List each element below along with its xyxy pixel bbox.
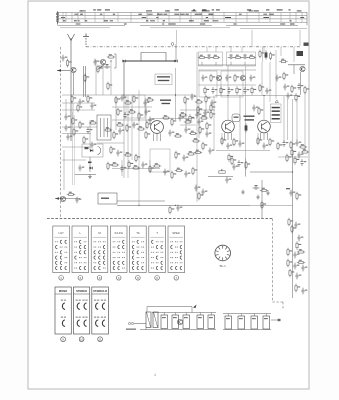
pin label top (216, 9, 220, 10)
svg-text:STEREO-R: STEREO-R (93, 289, 107, 293)
module outline IF amp (199, 71, 217, 97)
switch contact (60, 251, 62, 254)
wire supply rail (62, 94, 195, 96)
switch contact pins (137, 257, 138, 258)
wire mesh v (292, 99, 294, 155)
switch contact (60, 256, 62, 259)
wire (231, 133, 233, 140)
capacitor LM10 (184, 171, 187, 178)
switch wafer S2 (72, 226, 89, 273)
resistor MC5 (146, 99, 154, 101)
filter cell F3 (251, 316, 258, 329)
diode D2 (174, 60, 177, 63)
switch contact (175, 267, 177, 270)
switch contact pins (64, 257, 65, 258)
capacitor U3 (238, 141, 241, 148)
switch section boundary dashed (47, 218, 273, 220)
resistor RS2 (286, 154, 288, 162)
svg-text:11: 11 (99, 338, 102, 342)
wire tie (190, 12, 192, 22)
resistor LC0 (197, 106, 199, 114)
switch contact pins (113, 252, 114, 253)
cell label (162, 317, 166, 318)
module outline IF filter (221, 71, 243, 97)
switch contact pins (175, 241, 176, 242)
node (175, 94, 176, 95)
label (286, 188, 290, 189)
switch contact (118, 246, 120, 249)
wire (153, 133, 155, 141)
resistor MF3 (83, 136, 85, 144)
pin label (206, 17, 208, 18)
resistor B2 (195, 101, 203, 103)
wire mesh v (65, 99, 67, 114)
wire mesh v (145, 98, 147, 128)
capacitor LC1 (203, 110, 206, 117)
resistor RR2 (299, 146, 307, 148)
capacitor MF7 (118, 128, 121, 135)
voltage text row 3 (272, 118, 280, 120)
resistor R1 (66, 59, 68, 67)
capacitor ML3 (90, 103, 93, 110)
pin label (213, 20, 219, 21)
resistor MF11 (162, 117, 170, 119)
potentiometer P1 (219, 169, 225, 173)
resistor RC55 (295, 93, 297, 101)
svg-text:BL.1: BL.1 (220, 264, 227, 268)
switch contact (75, 256, 77, 259)
wire tie (157, 12, 159, 22)
module outline mixer-osc (126, 95, 145, 118)
resistor U0 (221, 137, 223, 145)
pin label top (247, 9, 251, 10)
wire feeder drop (280, 47, 282, 56)
switch contact pins (55, 252, 56, 253)
wire faint v1 (72, 112, 74, 185)
switch contact (161, 261, 163, 264)
resistor RC53 (304, 86, 306, 94)
capacitor C15 (242, 56, 249, 59)
resistor B6 (189, 114, 191, 122)
switch contact (180, 246, 182, 249)
wire (263, 133, 265, 140)
contact group (62, 303, 65, 309)
resistor R21 (210, 74, 212, 82)
pin label (76, 24, 81, 25)
resistor MC11 (116, 124, 124, 126)
capacitor MF19 (182, 155, 185, 162)
wire long vertical (127, 95, 129, 178)
wire group2 bottom (223, 329, 271, 331)
resistor R45 (283, 72, 285, 80)
transistor can Q10 (151, 121, 164, 134)
contact group (96, 303, 99, 309)
resistor R42 (269, 52, 271, 60)
wire (198, 64, 256, 66)
resistor R16 (248, 56, 256, 58)
test point marker (275, 100, 278, 103)
socket pin 5 (225, 257, 227, 259)
svg-text:STEREO: STEREO (76, 289, 87, 293)
pin label (167, 10, 170, 11)
socket pin 7 (219, 257, 221, 259)
ground (88, 174, 92, 178)
transistor Q2 (100, 59, 105, 64)
wafer number 2 (78, 276, 83, 281)
switch contact pins (60, 247, 61, 248)
switch contact (132, 251, 134, 254)
wire (198, 69, 256, 71)
wire mesh v (185, 100, 187, 128)
node (123, 94, 124, 95)
capacitor B16 (208, 148, 211, 155)
capacitor RX0 (297, 235, 300, 242)
contact group (84, 320, 87, 326)
wire bus segment (140, 24, 212, 26)
resistor R67 (228, 153, 230, 161)
capacitor C1 (61, 55, 64, 62)
cell label (252, 318, 256, 319)
wire mesh v (110, 61, 112, 95)
svg-text:10: 10 (80, 338, 84, 342)
switch contact (132, 246, 134, 249)
label ratio detector line1 (160, 100, 171, 101)
socket pin 9 (216, 250, 219, 253)
capacitor U5 (262, 143, 265, 150)
switch contact pins (170, 262, 171, 263)
label line 2 (245, 119, 255, 120)
resistor R46 (259, 84, 261, 92)
switch contact (132, 267, 134, 270)
wire secondary bottom (140, 329, 216, 331)
pin label (197, 14, 202, 15)
switch contact (60, 267, 62, 270)
wafer number 7 (174, 276, 179, 281)
switch wafer S3 (91, 226, 108, 273)
pin label (189, 20, 192, 21)
switch wafer S6 (149, 226, 166, 273)
pin label (61, 17, 65, 18)
switch contact (56, 256, 58, 259)
switch contact pins (175, 257, 176, 258)
pin label (164, 14, 168, 15)
resistor U2 (233, 138, 235, 146)
switch contact (103, 261, 105, 264)
svg-text:T: T (156, 231, 158, 235)
wire group2 top (223, 313, 271, 315)
FM tuner shield (84, 66, 86, 97)
callout box Abstimmanzeige (155, 74, 172, 85)
wire mesh v (63, 150, 65, 190)
switch contact (137, 240, 139, 243)
wire (261, 180, 263, 218)
resistor U6 (269, 138, 271, 146)
capacitor X10 (194, 185, 197, 192)
resistor R43 (279, 60, 287, 62)
wire tie (246, 12, 248, 22)
resistor RX1 (296, 241, 298, 249)
resistor MF15 (145, 131, 147, 139)
wire tie (117, 12, 119, 22)
pin label (290, 20, 292, 21)
switch contact pins (103, 268, 104, 269)
wire to output stage (250, 171, 293, 173)
detector module box (82, 144, 103, 157)
pin label top (277, 9, 280, 10)
switch contact pins (141, 262, 142, 263)
resistor LM2 (128, 160, 130, 168)
voltage text row 1 (272, 110, 280, 112)
resistor R41 (259, 50, 261, 58)
cell label (198, 317, 202, 318)
resistor B5 (179, 114, 187, 116)
resistor MF20 (187, 153, 195, 155)
switch contact (171, 246, 173, 249)
wire mesh h (62, 159, 86, 161)
chassis boundary dashed left (60, 47, 62, 219)
switch contact pins (137, 247, 138, 248)
capacitor L4 (66, 134, 69, 141)
wire tie (289, 12, 291, 22)
capacitor RV7 (295, 273, 298, 280)
block number (79, 337, 84, 342)
svg-text:SPEZ.: SPEZ. (172, 231, 180, 235)
transistor Q6 (216, 75, 221, 80)
switch contact (84, 251, 86, 254)
resistor MC6 (117, 108, 119, 116)
resistor B14 (192, 140, 200, 142)
cell label (239, 318, 243, 319)
capacitor C35 (243, 87, 246, 94)
capacitor B10 (184, 127, 187, 134)
capacitor C47 (265, 88, 268, 95)
capacitor C33 (227, 87, 230, 94)
wire (75, 173, 96, 175)
pin label (191, 10, 196, 11)
node (292, 171, 293, 172)
resistor ML0 (71, 95, 73, 103)
mains label 220V (126, 329, 136, 330)
wire mesh h (112, 119, 152, 121)
wafer number 5 (136, 276, 141, 281)
switch contact pins (84, 262, 85, 263)
pin label (163, 20, 165, 21)
ground (256, 195, 260, 199)
capacitor RC54 (286, 93, 289, 100)
box label (101, 198, 109, 200)
wire antenna input (57, 70, 70, 72)
wire tie (168, 12, 170, 22)
capacitor MF10 (148, 117, 151, 124)
wire (201, 62, 203, 65)
label output terminals (297, 51, 304, 56)
wire can feed (227, 96, 229, 121)
svg-text:U17: U17 (59, 231, 65, 235)
switch contact (180, 267, 182, 270)
ground (266, 191, 270, 195)
capacitor C44 (275, 75, 278, 82)
pin label (186, 14, 189, 15)
wire (191, 307, 193, 313)
module outline AM mixer (199, 52, 223, 66)
cell label (264, 318, 268, 319)
switch contact (99, 261, 101, 264)
wire mesh h (112, 106, 152, 108)
resistor R24 (234, 74, 236, 82)
switch contact (137, 251, 139, 254)
pin label (110, 20, 113, 21)
pin label (263, 14, 267, 15)
resistor MF2 (89, 122, 97, 124)
det label (85, 147, 89, 149)
switch contact pins (151, 268, 152, 269)
wire (145, 328, 147, 330)
cell label (184, 317, 188, 318)
pin label (225, 17, 231, 18)
wire (244, 62, 246, 65)
wire drop c (275, 50, 277, 99)
switch contact (56, 261, 58, 264)
socket pin 3 (227, 250, 230, 253)
resistor MC12 (126, 124, 128, 132)
switch contact pins (141, 247, 142, 248)
wire mesh h (62, 146, 91, 148)
switch contact (113, 267, 115, 270)
switch contact pins (151, 252, 152, 253)
pin label (63, 20, 66, 21)
resistor MC3 (133, 95, 135, 103)
resistor MF9 (135, 154, 137, 162)
resistor MF8 (124, 154, 132, 156)
voltage text row 0 (272, 107, 280, 109)
wafer number 1 (59, 276, 64, 281)
capacitor RU1 (294, 222, 297, 229)
switch contact pins (156, 262, 157, 263)
pin label (239, 14, 242, 15)
wire (300, 72, 302, 95)
contact group (84, 303, 87, 309)
switch contact pins (156, 252, 157, 253)
capacitor C26 (249, 75, 252, 82)
resistor B0 (184, 96, 186, 104)
node (138, 205, 139, 206)
pin label top (175, 9, 179, 10)
resistor B12 (199, 126, 201, 134)
wire mesh v (205, 101, 207, 120)
wire (224, 133, 226, 140)
switch contact pins (93, 262, 94, 263)
wire (123, 61, 125, 99)
pin label (200, 24, 205, 25)
resistor U4 (257, 137, 259, 145)
capacitor C20 (201, 75, 204, 82)
switch contact (94, 267, 96, 270)
resistor RS0 (277, 142, 279, 150)
input arrow 2 (55, 197, 59, 199)
boundary dashed stub (282, 302, 284, 309)
capacitor ML1 (78, 99, 81, 106)
trimmer C3 (98, 65, 105, 70)
pin label (85, 20, 87, 21)
pin label (100, 14, 102, 15)
resistor MC0 (115, 96, 117, 104)
capacitor LM7 (163, 169, 166, 176)
wire tie (65, 12, 67, 22)
rectifier cell G3 (183, 315, 190, 329)
capacitor MF1 (86, 127, 89, 134)
pin label (146, 10, 152, 11)
wire (55, 198, 80, 200)
wire vertical AF (196, 155, 198, 202)
wire tie (295, 12, 297, 22)
resistor R61 (260, 189, 268, 191)
node (110, 60, 111, 61)
pin label (113, 14, 115, 15)
switch contact (161, 267, 163, 270)
resistor LM5 (149, 165, 151, 173)
resistor RC51 (291, 85, 293, 93)
stub terminal (278, 319, 281, 321)
resistor R5 (107, 82, 109, 90)
switch contact pins (74, 247, 75, 248)
switch contact (180, 256, 182, 259)
capacitor C5 (104, 65, 111, 68)
node (138, 119, 139, 120)
wire bus segment (150, 27, 230, 29)
resistor RV0 (287, 248, 289, 256)
switch contact (137, 267, 139, 270)
switch contact (171, 267, 173, 270)
wire channel 3 (227, 66, 229, 96)
pin label (263, 17, 269, 18)
switch contact pins (117, 241, 118, 242)
switch contact (118, 267, 120, 270)
resistor L3 (73, 128, 75, 136)
wire secondary top (152, 312, 216, 314)
wire long vertical (131, 95, 133, 160)
contact group (102, 320, 105, 326)
wire mesh h (180, 109, 215, 111)
contact group (102, 303, 105, 309)
pilot lamp (171, 43, 174, 46)
wire tie (84, 12, 86, 22)
contact group (62, 320, 65, 326)
capacitor C70 (75, 197, 78, 204)
callout text line 2 (158, 80, 170, 81)
pin label (138, 14, 142, 15)
wafer number 3 (97, 276, 102, 281)
pin label (209, 14, 214, 15)
switch contact (103, 256, 105, 259)
pin label (199, 14, 202, 15)
transistor Q5 (300, 66, 305, 71)
socket pin 6 (222, 257, 224, 260)
capacitor C68 (232, 164, 235, 171)
resistor R60 (245, 161, 247, 169)
switch contact (79, 251, 81, 254)
wire output stub (271, 319, 277, 321)
pin label (156, 17, 158, 18)
socket pin 10 (219, 247, 221, 249)
resistor B17 (194, 151, 202, 153)
wire tie (201, 12, 203, 22)
switch contact pins (103, 241, 104, 242)
switch contact pins (122, 252, 123, 253)
capacitor LM4 (141, 162, 144, 169)
switch contact (123, 246, 125, 249)
terminal strip left bracket (57, 11, 59, 24)
pin label top (203, 9, 206, 10)
